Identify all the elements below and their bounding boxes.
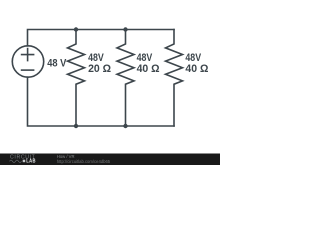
svg-text:20 Ω: 20 Ω <box>88 63 111 75</box>
V1 plus sign <box>22 49 34 61</box>
wire top rail <box>28 30 175 46</box>
junction node top R2 <box>123 27 127 31</box>
svg-text:48 V: 48 V <box>47 58 67 70</box>
footer bar <box>0 154 220 166</box>
V1 minus sign <box>22 69 34 71</box>
junction node bottom R2 <box>123 124 127 128</box>
resistor R1 <box>68 30 85 127</box>
junction node top R1 <box>74 27 78 31</box>
svg-text:40 Ω: 40 Ω <box>185 63 208 75</box>
CircuitLab logo wave <box>10 160 22 162</box>
voltage source V1 circle <box>12 46 43 77</box>
CircuitLab logo square <box>23 160 26 163</box>
svg-text:LAB: LAB <box>26 159 36 165</box>
wire bottom rail <box>28 77 175 126</box>
resistor R2 <box>117 30 134 127</box>
junction node bottom R1 <box>74 124 78 128</box>
svg-text:40 Ω: 40 Ω <box>137 63 160 75</box>
resistor R3 <box>166 30 183 127</box>
svg-text:http://circuitlab.com/ce4db65: http://circuitlab.com/ce4db65 <box>57 159 111 164</box>
